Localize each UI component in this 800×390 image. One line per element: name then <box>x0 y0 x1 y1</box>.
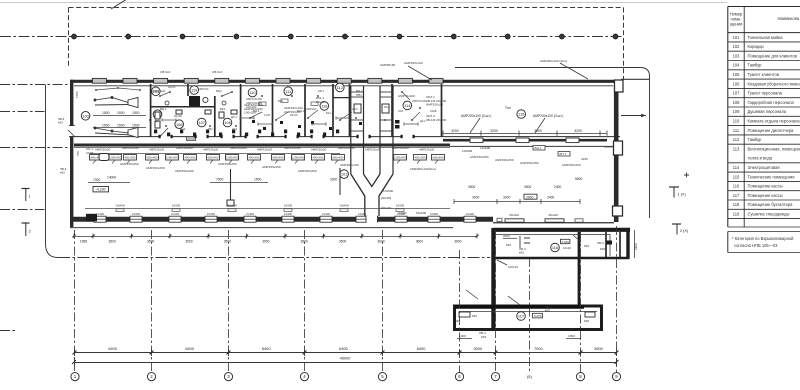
svg-text:1 (Х): 1 (Х) <box>678 193 687 197</box>
funnel labels <box>381 189 426 215</box>
svg-text:БК1.2: БК1.2 <box>326 111 334 115</box>
svg-text:Туалет клиентов: Туалет клиентов <box>748 72 779 77</box>
svg-text:#25: #25 <box>584 319 589 323</box>
svg-text:АМР200х100 (3 шт.): АМР200х100 (3 шт.) <box>533 114 563 118</box>
room103 dim row1 <box>93 111 146 116</box>
axis point marker 6 <box>343 34 348 39</box>
svg-text:23АБ: 23АБ <box>430 109 437 113</box>
svg-text:114: 114 <box>404 103 411 108</box>
room116 fixtures <box>503 234 612 255</box>
svg-text:103: 103 <box>733 53 741 58</box>
window top wall 10 <box>368 78 382 83</box>
door opening left wall <box>68 126 75 137</box>
room tag 118 <box>320 102 329 111</box>
svg-text:ВК1: ВК1 <box>220 107 226 111</box>
svg-text:3500: 3500 <box>109 240 117 244</box>
svg-text:НВ1: НВ1 <box>356 93 362 97</box>
svg-text:20х25: 20х25 <box>168 85 176 89</box>
room tag 108 <box>223 118 232 127</box>
svg-text:Технические помещения: Технические помещения <box>748 174 795 179</box>
svg-text:3200: 3200 <box>451 129 459 133</box>
partition wall v5 <box>272 84 274 137</box>
partition wall v3 <box>214 96 216 137</box>
svg-text:600х400: 600х400 <box>146 156 157 160</box>
svg-text:1500: 1500 <box>102 111 110 115</box>
svg-text:(5): (5) <box>527 374 533 379</box>
extension north wall <box>493 228 630 232</box>
svg-text:АМР70х420: АМР70х420 <box>412 99 427 103</box>
svg-text:6400: 6400 <box>339 346 348 351</box>
svg-text:3600: 3600 <box>416 240 424 244</box>
room tag 103 <box>81 112 90 121</box>
room tag 115 <box>517 110 526 119</box>
equipment rounded box <box>99 154 109 161</box>
svg-text:10400: 10400 <box>284 212 292 216</box>
svg-text:Помещение для клиентов: Помещение для клиентов <box>748 53 797 58</box>
grid circle 8 <box>576 373 584 381</box>
label cluster 7 <box>426 114 446 122</box>
svg-text:АМР150х250: АМР150х250 <box>146 166 165 170</box>
svg-text:3000: 3000 <box>472 195 480 199</box>
svg-text:118: 118 <box>733 202 740 207</box>
svg-text:3600: 3600 <box>454 240 462 244</box>
svg-text:3500: 3500 <box>185 240 193 244</box>
axis point marker 3 <box>180 34 185 39</box>
svg-text:3200: 3200 <box>574 129 582 133</box>
svg-text:3500: 3500 <box>224 240 232 244</box>
svg-text:#25: #25 <box>600 247 605 251</box>
dim texts upper extension <box>468 185 562 189</box>
svg-text:106: 106 <box>733 81 741 86</box>
svg-text:АМР150х20: АМР150х20 <box>203 148 219 152</box>
svg-text:117: 117 <box>733 193 740 198</box>
svg-text:1000: 1000 <box>459 334 466 338</box>
svg-text:109: 109 <box>733 109 741 114</box>
room117 top heavy band <box>455 305 585 309</box>
svg-text:АМР150х250: АМР150х250 <box>230 146 247 150</box>
sanitary fixtures row <box>154 130 339 137</box>
svg-text:2х400: 2х400 <box>96 212 104 216</box>
vent equip boxes <box>354 104 389 113</box>
svg-text:ВЦ.1: ВЦ.1 <box>535 146 542 150</box>
apron edge left <box>46 85 59 258</box>
svg-text:113: 113 <box>733 146 740 151</box>
extension west wall <box>491 228 495 331</box>
partition wall v2 <box>187 84 189 96</box>
svg-text:110: 110 <box>733 119 740 124</box>
svg-text:10400: 10400 <box>132 212 140 216</box>
svg-text:АМР100: АМР100 <box>198 87 209 91</box>
window bottom wall 10 <box>428 216 440 222</box>
svg-text:тепла и вода: тепла и вода <box>748 156 773 161</box>
axis vertical 9 <box>580 232 582 372</box>
svg-text:108: 108 <box>224 120 231 125</box>
elevation label box <box>93 187 109 192</box>
svg-text:АМР150х20: АМР150х20 <box>149 148 165 152</box>
room103 dim row2 <box>93 123 146 127</box>
label cluster 8 <box>160 70 170 74</box>
svg-text:2 (Х): 2 (Х) <box>680 229 689 233</box>
svg-text:2х400: 2х400 <box>322 212 330 216</box>
svg-text:АМР150х250: АМР150х250 <box>470 155 489 159</box>
svg-text:АМР150х250: АМР150х250 <box>520 161 539 165</box>
svg-text:Помещение кассы: Помещение кассы <box>748 184 783 189</box>
room tag 114 <box>403 101 412 110</box>
grid circle 4 <box>300 373 308 381</box>
room110-114 fixtures <box>252 120 400 130</box>
boundary break tick <box>111 0 127 9</box>
axis vertical 2 <box>151 230 153 372</box>
svg-text:ДУ: ДУ <box>155 119 159 123</box>
svg-text:105: 105 <box>733 72 741 77</box>
corridor door gap 5 <box>286 135 297 138</box>
svg-text:400х300: 400х300 <box>248 156 259 160</box>
pilaster right bottom <box>614 141 623 155</box>
axis vertical 1 <box>74 230 76 372</box>
svg-text:10400: 10400 <box>284 204 293 208</box>
svg-text:111: 111 <box>285 89 291 94</box>
svg-text:#25: #25 <box>519 251 524 255</box>
label cluster 4 <box>356 89 363 97</box>
top road axis centerline <box>0 36 624 38</box>
section marker 2 right <box>672 224 689 235</box>
svg-text:Коридор: Коридор <box>748 44 765 49</box>
svg-text:ВЦ2: ВЦ2 <box>180 127 186 131</box>
top wall extension line <box>621 78 650 80</box>
svg-text:102: 102 <box>733 44 741 49</box>
svg-text:7х6400: 7х6400 <box>227 204 237 208</box>
svg-text:3200: 3200 <box>503 195 511 199</box>
svg-text:ВД.1: ВД.1 <box>160 107 167 111</box>
corridor door gap 3 <box>222 135 233 138</box>
section marker 2 left <box>22 223 32 236</box>
partition wall h1 <box>151 106 215 108</box>
svg-text:ОК1: ОК1 <box>232 127 238 131</box>
svg-text:щения: щения <box>730 22 742 27</box>
window bottom wall 6 <box>282 216 294 222</box>
window row above extension <box>497 213 583 222</box>
label cluster 2 <box>284 106 303 114</box>
partition wall v9 <box>391 84 393 137</box>
svg-text:ВК1: ВК1 <box>278 99 283 103</box>
window top wall 7 <box>276 78 290 83</box>
svg-text:7500: 7500 <box>216 178 224 182</box>
funnel inner vee <box>364 174 381 187</box>
window top wall 4 <box>184 78 198 83</box>
svg-text:2400: 2400 <box>547 195 555 199</box>
partition wall h2 <box>333 97 350 99</box>
svg-text:АМР150х250: АМР150х250 <box>120 162 139 166</box>
svg-text:#25: #25 <box>545 309 550 313</box>
svg-text:1500: 1500 <box>254 178 262 182</box>
corridor wall lower thin <box>450 145 613 147</box>
svg-text:АМР150х20: АМР150х20 <box>95 148 111 152</box>
svg-text:5600: 5600 <box>575 177 583 181</box>
corridor wall upper <box>74 136 620 138</box>
svg-text:103: 103 <box>82 113 89 118</box>
svg-text:СВ.6х4: СВ.6х4 <box>212 70 222 74</box>
svg-text:#15: #15 <box>60 171 65 175</box>
page edge faint line <box>0 2 727 4</box>
wall bottom right segment <box>493 222 614 224</box>
room103 grille upper <box>94 97 138 108</box>
room tag 106 <box>175 120 184 129</box>
centerline left D <box>0 209 45 211</box>
svg-text:54х600: 54х600 <box>416 211 426 215</box>
svg-text:104: 104 <box>733 63 741 68</box>
window bottom wall 3 <box>169 216 181 222</box>
svg-text:400х300: 400х300 <box>414 156 425 160</box>
svg-text:25х5: 25х5 <box>384 105 390 109</box>
svg-text:Наименова: Наименова <box>777 16 799 21</box>
svg-text:Электрощитовая: Электрощитовая <box>748 165 780 170</box>
room tag 107 <box>197 118 206 127</box>
svg-text:АМР200х100(3шт): АМР200х100(3шт) <box>410 167 436 171</box>
svg-text:1200х400: 1200х400 <box>292 156 305 160</box>
grid circle 3 <box>224 373 232 381</box>
svg-text:#25: #25 <box>506 243 511 247</box>
svg-text:6400: 6400 <box>262 346 271 351</box>
left outside labels <box>58 91 80 174</box>
svg-text:3500: 3500 <box>262 240 270 244</box>
svg-text:1200х400: 1200х400 <box>166 156 179 160</box>
vent duct walls <box>351 86 393 174</box>
svg-text:Сушилка спецодежды: Сушилка спецодежды <box>748 212 790 217</box>
window top wall 3 <box>154 78 168 83</box>
svg-text:АМР150х250: АМР150х250 <box>298 169 317 173</box>
partition wall v7 <box>332 84 334 137</box>
svg-text:101: 101 <box>341 172 348 177</box>
label cluster 1 <box>244 103 263 115</box>
room tag 105 <box>152 87 161 96</box>
svg-text:Кладовая уборочного инвент: Кладовая уборочного инвент <box>748 81 800 86</box>
hall top edge line <box>74 147 450 149</box>
wall exterior top inner face <box>74 85 613 87</box>
svg-text:Гардеробная персонала: Гардеробная персонала <box>748 100 795 105</box>
svg-text:АМР150х250: АМР150х250 <box>262 165 281 169</box>
svg-text:7х6400: 7х6400 <box>115 204 125 208</box>
svg-text:3600: 3600 <box>594 346 603 351</box>
svg-text:10400: 10400 <box>207 212 215 216</box>
svg-text:5.000: 5.000 <box>562 240 570 244</box>
svg-text:111: 111 <box>733 128 740 133</box>
svg-text:#15: #15 <box>58 121 63 125</box>
room tag 111 <box>284 87 293 96</box>
svg-text:АМР150х250: АМР150х250 <box>338 146 355 150</box>
svg-text:ГВ1: ГВ1 <box>208 127 213 131</box>
equipment leader labels <box>86 147 436 173</box>
axis point marker 4 <box>234 34 239 39</box>
svg-text:ЛВ-4: ЛВ-4 <box>597 241 604 245</box>
svg-text:Душевая персонала: Душевая персонала <box>748 109 787 114</box>
svg-text:2х400: 2х400 <box>171 212 179 216</box>
svg-text:1500: 1500 <box>117 123 125 127</box>
svg-text:119: 119 <box>733 212 740 217</box>
svg-text:10400: 10400 <box>172 204 181 208</box>
svg-text:3200: 3200 <box>490 129 498 133</box>
section marker 1 left <box>22 189 32 202</box>
dim 1100 extension <box>634 230 638 258</box>
equipment row connector line <box>90 153 340 155</box>
svg-text:112: 112 <box>337 85 343 90</box>
room tag 110 <box>248 88 257 97</box>
svg-text:110х10: 110х10 <box>508 265 518 269</box>
svg-text:870х60: 870х60 <box>381 206 391 210</box>
room tag 104 <box>153 110 162 119</box>
grid circle 1 <box>71 373 79 381</box>
corridor door gap 2 <box>196 135 207 138</box>
extension east wall upper <box>626 228 629 259</box>
cross tick right <box>684 173 689 178</box>
svg-text:600х400: 600х400 <box>272 156 283 160</box>
room tag 112 <box>336 83 345 92</box>
axis vertical 8 <box>529 258 531 372</box>
window top wall 12 <box>429 78 443 83</box>
svg-text:2х400: 2х400 <box>246 212 254 216</box>
svg-text:6400: 6400 <box>417 346 426 351</box>
window bottom wall 1 <box>94 216 106 222</box>
svg-text:АМР150х200: АМР150х200 <box>175 169 194 173</box>
room annotations extra <box>160 99 318 119</box>
svg-text:106: 106 <box>176 122 183 127</box>
svg-text:1100: 1100 <box>634 243 638 250</box>
axis vertical 7 <box>495 230 497 372</box>
partition wall v4 <box>240 84 242 137</box>
svg-text:Вентиляционная, помещени: Вентиляционная, помещени <box>748 146 800 151</box>
hall equipment rail <box>443 138 607 143</box>
svg-text:7000: 7000 <box>534 346 543 351</box>
corridor door gap 8 <box>402 135 413 138</box>
window bottom wall 4 <box>205 216 217 222</box>
svg-text:4425: 4425 <box>581 157 588 161</box>
svg-text:3500: 3500 <box>468 185 476 189</box>
window top wall 2 <box>123 78 137 83</box>
svg-text:АМР150х250: АМР150х250 <box>284 146 301 150</box>
extension middle leader <box>497 260 507 265</box>
small fixture circle <box>203 97 208 102</box>
svg-text:101: 101 <box>733 35 741 40</box>
apron edge bottom <box>58 257 490 259</box>
grid circle 7 <box>491 373 499 381</box>
equipment row wash hall <box>90 155 445 164</box>
svg-text:1500: 1500 <box>132 123 140 127</box>
room103 grille lower <box>94 127 138 138</box>
axis point marker 8 <box>451 34 456 39</box>
svg-text:-4,200: -4,200 <box>96 188 106 192</box>
vent duct rungs <box>351 92 393 131</box>
axis point marker 10 <box>560 34 565 39</box>
svg-text:АМР70х420: АМР70х420 <box>398 94 415 98</box>
svg-text:ОК2: ОК2 <box>398 109 404 113</box>
window bottom wall 9 <box>395 216 407 222</box>
svg-text:20х20: 20х20 <box>174 114 182 118</box>
room117 below labels <box>457 331 581 339</box>
section marker 1 right <box>669 187 686 198</box>
axis point marker 11 <box>613 34 618 39</box>
corridor door gap 1 <box>160 135 171 138</box>
hall labels AMP <box>461 106 563 133</box>
wall exterior top <box>70 80 621 83</box>
window bottom wall 2 <box>130 216 142 222</box>
room117 outer walls <box>455 306 602 330</box>
svg-text:114: 114 <box>733 165 740 170</box>
room117 fixtures <box>455 290 595 323</box>
axis vertical 5 <box>382 230 384 372</box>
plinth line below bottom wall <box>70 227 453 229</box>
svg-text:2000: 2000 <box>503 234 510 238</box>
svg-text:23АБ: 23АБ <box>86 151 94 155</box>
svg-text:14000: 14000 <box>107 176 116 180</box>
svg-text:107: 107 <box>733 91 741 96</box>
svg-text:АМР150х250: АМР150х250 <box>176 146 193 150</box>
corridor boxed label <box>187 137 196 141</box>
svg-text:115: 115 <box>733 174 740 179</box>
centerline left E <box>0 330 16 332</box>
room schedule table <box>728 7 800 253</box>
svg-text:1800: 1800 <box>568 334 575 338</box>
entrance arrow <box>621 114 646 118</box>
label cluster 3 <box>316 96 325 104</box>
svg-text:#15: #15 <box>481 335 486 339</box>
label cluster 6 <box>426 95 446 107</box>
svg-text:20х2: 20х2 <box>352 107 358 111</box>
svg-text:Тоннельная мойка: Тоннельная мойка <box>748 35 784 40</box>
svg-text:БП.1: БП.1 <box>560 152 567 156</box>
svg-text:10х600: 10х600 <box>480 146 490 150</box>
room tag 117 <box>517 312 526 321</box>
svg-text:10400: 10400 <box>430 212 438 216</box>
svg-text:АМР150х250: АМР150х250 <box>122 146 139 150</box>
axis vertical 4 <box>304 230 306 372</box>
partition axis8 extension <box>578 232 581 306</box>
interior fixture dots <box>95 87 421 127</box>
svg-text:3500: 3500 <box>147 240 155 244</box>
svg-text:750: 750 <box>76 151 80 156</box>
window bottom wall 8 <box>356 216 368 222</box>
svg-text:115: 115 <box>518 112 524 117</box>
svg-text:* Категория по Взрывопожарно: * Категория по Взрывопожарной <box>732 236 793 241</box>
svg-text:7х6400: 7х6400 <box>339 204 349 208</box>
svg-text:20000: 20000 <box>187 137 195 141</box>
svg-text:3500: 3500 <box>524 185 532 189</box>
wall exterior left <box>70 80 73 227</box>
svg-text:1500: 1500 <box>132 111 140 115</box>
centerline left C <box>0 147 70 149</box>
svg-text:#25: #25 <box>584 244 589 248</box>
svg-text:5.000: 5.000 <box>534 314 542 318</box>
axis vertical 10 <box>616 226 618 372</box>
grid circle 2 <box>147 373 155 381</box>
room116 south wall <box>495 257 629 260</box>
labels above wall mid <box>380 59 588 80</box>
svg-text:КВ-1М 20х200: КВ-1М 20х200 <box>426 118 446 122</box>
svg-text:112: 112 <box>733 137 740 142</box>
svg-text:7000: 7000 <box>93 178 101 182</box>
svg-text:3500: 3500 <box>339 240 347 244</box>
site boundary dashed line top <box>69 7 624 9</box>
svg-text:ВД.2: ВД.2 <box>216 89 222 93</box>
svg-text:1500: 1500 <box>117 111 125 115</box>
svg-text:600х400: 600х400 <box>432 156 443 160</box>
svg-text:10х10: 10х10 <box>563 246 572 250</box>
svg-text:Тип: Тип <box>505 106 511 110</box>
svg-text:АМР100х100: АМР100х100 <box>404 61 423 65</box>
svg-text:400х300: 400х300 <box>312 156 323 160</box>
svg-text:2х400: 2х400 <box>466 212 474 216</box>
axis vertical 3 <box>228 230 230 372</box>
svg-text:[30х60]: [30х60] <box>381 196 391 200</box>
svg-text:АМР150х250: АМР150х250 <box>495 158 514 162</box>
